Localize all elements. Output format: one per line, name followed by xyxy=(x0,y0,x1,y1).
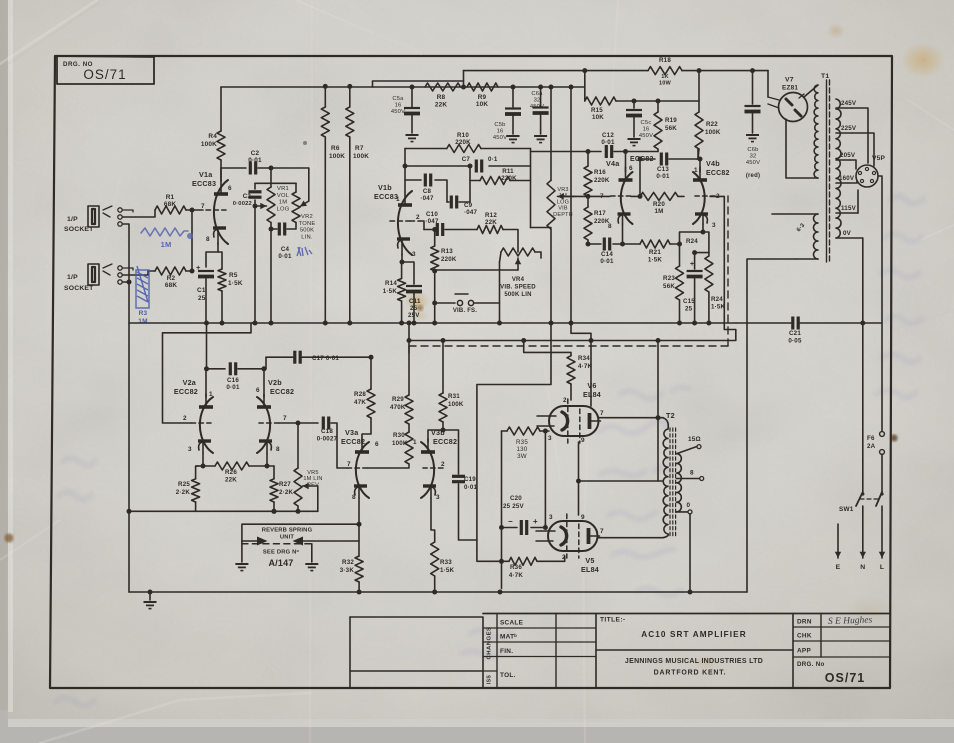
svg-text:7: 7 xyxy=(283,415,287,422)
potentiometer VR3 1M vib depth xyxy=(547,87,555,323)
potentiometer VR5 1M reverb xyxy=(294,423,302,511)
svg-text:ECC83: ECC83 xyxy=(192,179,216,188)
wire C18 to V3a grid xyxy=(331,423,347,468)
label ECC82 for V4b xyxy=(706,170,730,177)
pin 3 of V1b xyxy=(412,251,416,258)
label V6 EL84 xyxy=(583,381,601,399)
label C1 xyxy=(197,287,206,302)
svg-text:25: 25 xyxy=(410,305,418,312)
svg-text:R13: R13 xyxy=(441,248,453,255)
resistor R12 22K xyxy=(477,226,518,253)
svg-text:16: 16 xyxy=(643,126,650,132)
resistor R33 1.5K xyxy=(431,542,439,592)
svg-text:(red): (red) xyxy=(746,173,760,179)
label R32 xyxy=(340,559,355,574)
capacitor C20 25 25V xyxy=(499,517,545,535)
ground for C6b xyxy=(746,135,759,142)
svg-text:ECC82: ECC82 xyxy=(270,387,294,396)
svg-text:T2: T2 xyxy=(666,411,675,420)
svg-text:100K: 100K xyxy=(448,401,464,408)
pin 8 of V3a xyxy=(352,494,356,501)
label VR5 xyxy=(303,470,322,488)
svg-text:C18: C18 xyxy=(321,428,333,435)
svg-text:6: 6 xyxy=(629,165,633,172)
label 6.3V xyxy=(796,222,807,233)
pin 2 of V5 xyxy=(562,554,566,561)
svg-text:+: + xyxy=(196,263,201,272)
label R22 xyxy=(705,121,721,136)
svg-text:VR2: VR2 xyxy=(301,214,313,220)
resistor R24 1.5K xyxy=(695,253,713,323)
svg-text:OS/71: OS/71 xyxy=(825,671,865,685)
label V2b ECC82 xyxy=(268,378,294,396)
svg-text:EL84: EL84 xyxy=(581,565,599,574)
svg-text:C4: C4 xyxy=(281,246,290,253)
svg-text:8: 8 xyxy=(352,494,356,501)
wire V6 plate to T2 primary xyxy=(599,418,669,429)
svg-text:DRG. No: DRG. No xyxy=(797,661,825,668)
label V1a ECC83 xyxy=(192,170,216,188)
wire V2b grid to C18 xyxy=(279,421,318,426)
svg-text:C5c: C5c xyxy=(641,120,652,126)
dashed section boundary xyxy=(409,196,728,357)
svg-text:2: 2 xyxy=(183,415,187,422)
svg-text:1·5K: 1·5K xyxy=(648,257,663,264)
svg-text:LOG: LOG xyxy=(557,199,569,205)
label VR2 xyxy=(299,214,316,240)
T2 primary winding xyxy=(663,429,668,534)
svg-text:JENNINGS MUSICAL INDUSTRIES LT: JENNINGS MUSICAL INDUSTRIES LTD xyxy=(625,658,763,665)
svg-text:R2: R2 xyxy=(167,275,176,282)
wire V4b cathode left leg xyxy=(677,224,703,247)
VR4 wiper arrow xyxy=(435,258,522,270)
ground for C6a xyxy=(534,136,547,143)
label V4a xyxy=(606,159,620,168)
wire rail to R15 xyxy=(582,68,587,101)
transformer T1 core xyxy=(827,80,830,262)
resistor R5 1.5K xyxy=(218,269,226,323)
wire V6 cathode node xyxy=(543,429,549,528)
label R7 xyxy=(353,145,369,160)
svg-text:DEPTH: DEPTH xyxy=(553,212,573,218)
svg-text:0·01: 0·01 xyxy=(464,484,478,491)
svg-text:3: 3 xyxy=(549,514,553,521)
svg-text:E: E xyxy=(836,564,841,571)
triode V3a xyxy=(347,439,369,498)
svg-text:7: 7 xyxy=(347,461,351,468)
svg-text:V2b: V2b xyxy=(268,378,282,387)
label R20 xyxy=(653,201,665,215)
svg-text:1M: 1M xyxy=(138,318,147,325)
pin 6 of V3a xyxy=(375,441,379,448)
svg-text:32: 32 xyxy=(534,97,541,103)
svg-text:C14: C14 xyxy=(601,251,613,258)
svg-text:1·5K: 1·5K xyxy=(383,288,398,295)
svg-text:C19: C19 xyxy=(464,476,476,483)
svg-text:R10: R10 xyxy=(457,132,469,139)
svg-text:450V: 450V xyxy=(746,160,760,166)
wire jack grounds to earth bus xyxy=(123,210,134,592)
svg-text:220K: 220K xyxy=(594,218,610,225)
svg-text:115V: 115V xyxy=(841,205,857,212)
svg-text:R19: R19 xyxy=(665,117,677,124)
svg-text:APP: APP xyxy=(797,648,811,655)
svg-text:V4a: V4a xyxy=(606,159,620,168)
tap 115V xyxy=(836,190,858,213)
pin 6 of V2b xyxy=(256,387,260,394)
B+ drop to V2a plate xyxy=(206,323,208,369)
pin 7 of V5 xyxy=(600,528,604,535)
title block grid xyxy=(350,614,889,689)
svg-text:ECC82: ECC82 xyxy=(706,170,730,177)
resistor R6 100K xyxy=(321,84,329,323)
svg-text:R35: R35 xyxy=(516,439,528,446)
resistor R28 47K xyxy=(362,355,375,442)
potentiometer VR4 vib speed 500K xyxy=(500,248,542,262)
svg-text:6: 6 xyxy=(256,387,260,394)
pin 3 of V5 xyxy=(549,514,553,521)
label R1 xyxy=(164,194,177,208)
svg-text:22K: 22K xyxy=(225,477,237,484)
svg-text:R21: R21 xyxy=(649,249,661,256)
svg-text:C7: C7 xyxy=(462,156,471,163)
label C8 xyxy=(420,188,434,202)
resistor R32 3.3K xyxy=(355,556,363,592)
svg-text:R20: R20 xyxy=(653,201,665,208)
svg-text:10W: 10W xyxy=(659,81,672,87)
svg-text:15Ω: 15Ω xyxy=(688,436,701,443)
svg-text:V6: V6 xyxy=(587,381,596,390)
svg-text:VR4: VR4 xyxy=(512,277,525,283)
label VIB FS xyxy=(453,308,477,314)
pin 8 of V2b xyxy=(276,446,280,453)
resistor R30 100K xyxy=(367,424,413,468)
label ECC82 for V4a xyxy=(630,156,654,163)
svg-text:TOL.: TOL. xyxy=(500,672,516,679)
label C5b xyxy=(493,122,507,141)
mains terminal N xyxy=(860,506,866,571)
svg-text:C6b: C6b xyxy=(747,147,758,153)
wire V4b cathode right leg xyxy=(701,230,709,253)
tap 205V xyxy=(836,152,856,169)
potentiometer VR2 500K tone xyxy=(292,183,300,222)
triode V3b xyxy=(421,439,443,498)
svg-text:1/P: 1/P xyxy=(67,216,78,223)
pin 2 of V6 xyxy=(563,397,567,404)
label C2 xyxy=(248,150,262,164)
svg-text:R17: R17 xyxy=(594,210,606,217)
wire J2 tip to R2 xyxy=(123,271,156,275)
triode V1b xyxy=(390,191,412,255)
label VR3 xyxy=(553,187,573,218)
pin 2 of V3b xyxy=(441,461,445,468)
HT rail C xyxy=(221,85,585,90)
svg-text:R30: R30 xyxy=(393,432,405,439)
svg-text:R7: R7 xyxy=(355,145,364,152)
reverb spring unit (see drg A/147) xyxy=(235,522,361,571)
svg-text:·047: ·047 xyxy=(425,218,439,225)
label C6b xyxy=(746,147,760,179)
svg-text:0·0022: 0·0022 xyxy=(233,201,252,207)
svg-text:OS/71: OS/71 xyxy=(83,67,126,82)
wire R2 to grid node xyxy=(186,210,195,274)
svg-text:68K: 68K xyxy=(164,201,177,208)
svg-text:C11: C11 xyxy=(409,298,421,305)
svg-text:VIB. FS.: VIB. FS. xyxy=(453,308,477,314)
svg-text:3: 3 xyxy=(412,251,416,258)
T1 primary HT winding xyxy=(786,85,818,178)
svg-text:245V: 245V xyxy=(841,100,857,107)
ground for C5c xyxy=(628,139,641,146)
svg-text:C20: C20 xyxy=(510,495,522,502)
capacitor C4 0.01 xyxy=(271,223,296,236)
label R2 xyxy=(165,275,178,289)
svg-text:VIB: VIB xyxy=(558,206,568,212)
svg-text:2A: 2A xyxy=(867,443,876,450)
pin 1 of V1b xyxy=(396,196,400,203)
svg-text:1: 1 xyxy=(694,167,698,174)
resistor R1 68K xyxy=(155,206,186,214)
svg-text:450V: 450V xyxy=(639,133,653,139)
label V2a ECC82 xyxy=(174,378,198,396)
svg-text:2: 2 xyxy=(563,397,567,404)
VR1 wiper arrow xyxy=(255,203,267,209)
pin 1 of V3b xyxy=(413,439,417,446)
svg-text:S E Hughes: S E Hughes xyxy=(828,615,873,627)
resistor R34 4.7K xyxy=(521,338,575,400)
approved row xyxy=(797,648,811,655)
C17 takeoff rail xyxy=(266,356,371,358)
label V3a ECC82 xyxy=(341,428,365,446)
svg-text:2: 2 xyxy=(441,461,445,468)
svg-text:0V: 0V xyxy=(843,230,852,237)
input jack J1 (upper I/P socket) xyxy=(88,206,122,227)
capacitor C16 0.01 xyxy=(230,362,235,375)
label R16 xyxy=(594,169,610,184)
tolerance row label xyxy=(500,672,516,679)
pin 7 of V4a xyxy=(600,193,604,200)
wire cathode resistor returns xyxy=(127,509,318,514)
capacitor C5a 16 450V xyxy=(404,87,420,133)
label C20 xyxy=(503,495,524,510)
mains terminal E xyxy=(835,524,841,571)
label R18 xyxy=(659,57,672,87)
capacitor C1 25 (cathode bypass) xyxy=(196,263,214,323)
svg-text:C16: C16 xyxy=(227,377,239,384)
svg-text:SOCKET: SOCKET xyxy=(64,226,94,233)
svg-text:56K: 56K xyxy=(665,125,677,132)
capacitor C14 0.01 xyxy=(604,238,609,251)
chassis ground stub xyxy=(144,590,157,609)
svg-text:R9: R9 xyxy=(478,94,487,101)
blue-pencil resistor R3 1M (vertical scribble) xyxy=(136,266,149,308)
label R33 xyxy=(440,559,455,574)
finish row label xyxy=(500,648,513,655)
svg-text:2: 2 xyxy=(416,214,420,221)
wire V5 plate to T2 primary xyxy=(598,534,669,538)
svg-text:R29: R29 xyxy=(392,396,404,403)
wire V2a plate feed xyxy=(204,366,225,397)
svg-text:CHK: CHK xyxy=(797,633,812,640)
wire C2 to tone network xyxy=(258,166,309,171)
svg-text:1M LIN: 1M LIN xyxy=(303,476,322,482)
wire R1 to V1a grid xyxy=(186,208,203,213)
wire V2a cathode xyxy=(196,453,215,466)
svg-text:C15: C15 xyxy=(683,298,695,305)
wire VR1 bottom to bus xyxy=(269,227,274,324)
pin 3 of V6 xyxy=(548,435,552,442)
resistor R35 130 3W xyxy=(502,427,546,435)
svg-text:R8: R8 xyxy=(437,94,446,101)
svg-text:450V: 450V xyxy=(391,109,405,115)
svg-text:1/P: 1/P xyxy=(67,274,78,281)
wire V5 grid feed from V4 xyxy=(477,323,551,561)
svg-text:3: 3 xyxy=(188,446,192,453)
capacitor C7 0.1 xyxy=(476,160,481,173)
resistor R8 22K xyxy=(425,83,461,91)
svg-text:R24: R24 xyxy=(686,238,698,245)
svg-text:22K: 22K xyxy=(435,102,448,109)
feedback/earth return from T2 common xyxy=(689,514,691,592)
label V1b ECC83 xyxy=(374,183,398,201)
svg-text:220K: 220K xyxy=(594,177,610,184)
svg-text:VR1: VR1 xyxy=(277,186,289,192)
svg-text:9: 9 xyxy=(581,437,585,444)
svg-text:450V: 450V xyxy=(530,104,544,110)
svg-text:1·5K: 1·5K xyxy=(228,280,243,287)
capacitor C15 25 xyxy=(687,250,703,323)
svg-text:R14: R14 xyxy=(385,280,397,287)
resistor R31 100K xyxy=(428,338,447,442)
label C12 xyxy=(601,132,615,146)
svg-text:R12: R12 xyxy=(485,212,497,219)
triode V2a xyxy=(191,394,213,453)
svg-text:6: 6 xyxy=(228,185,232,192)
label SW1 xyxy=(839,506,854,513)
svg-text:SEE DRG Nᵒ: SEE DRG Nᵒ xyxy=(263,550,300,556)
svg-text:450V: 450V xyxy=(493,135,507,141)
label R4 xyxy=(201,133,217,148)
wire V1b grid xyxy=(410,221,424,230)
label C13 xyxy=(656,166,670,180)
pin 6 of V1a xyxy=(228,185,232,192)
resistor R15 10K xyxy=(585,97,616,105)
label R24 value xyxy=(711,296,726,311)
capacitor C6a 32 450V xyxy=(533,87,549,134)
label C17 xyxy=(312,355,339,362)
svg-text:47K: 47K xyxy=(354,399,366,406)
svg-text:C5b: C5b xyxy=(494,122,505,128)
svg-text:R27: R27 xyxy=(279,481,291,488)
border frame xyxy=(50,56,892,688)
VR5 wiper arrow xyxy=(303,483,318,512)
screen supply link xyxy=(576,442,662,515)
blue scribble near C4 xyxy=(297,247,312,256)
svg-text:DARTFORD KENT.: DARTFORD KENT. xyxy=(654,670,727,677)
svg-text:VR5: VR5 xyxy=(307,470,318,476)
label R12 xyxy=(485,212,497,226)
HT drop to T2 centre xyxy=(656,338,661,481)
svg-text:R4: R4 xyxy=(208,133,217,140)
svg-text:R24: R24 xyxy=(711,296,723,303)
svg-text:R33: R33 xyxy=(440,559,452,566)
svg-text:220K: 220K xyxy=(501,175,517,182)
svg-text:1·5K: 1·5K xyxy=(711,304,726,311)
label R26 xyxy=(225,469,237,484)
svg-text:C6a: C6a xyxy=(531,91,543,97)
svg-text:7: 7 xyxy=(600,528,604,535)
label I/P socket 2 xyxy=(64,274,94,292)
svg-text:ECC82: ECC82 xyxy=(174,387,198,396)
svg-text:L: L xyxy=(880,564,884,571)
vibrato feed vertical xyxy=(531,149,552,228)
resistor R21 1.5K xyxy=(640,240,680,248)
capacitor C21 0.05 xyxy=(793,317,798,330)
svg-text:CHANGES: CHANGES xyxy=(487,627,493,660)
T1 heater winding 6.3V xyxy=(772,214,818,259)
mains neutral line xyxy=(862,238,864,492)
pin 8 of V1a xyxy=(206,236,210,243)
fuse F6 2A xyxy=(880,432,885,492)
label R14 xyxy=(383,280,398,295)
cathode rail of phase inverter xyxy=(586,242,641,247)
capacitor C8 .047 xyxy=(405,174,447,203)
svg-text:ISS: ISS xyxy=(487,675,493,685)
svg-text:−: − xyxy=(508,517,513,526)
label C18 xyxy=(317,428,338,443)
svg-text:R25: R25 xyxy=(178,481,190,488)
label R19 xyxy=(665,117,677,132)
capacitor C10 .047 xyxy=(424,223,477,236)
svg-text:16: 16 xyxy=(395,102,402,108)
pin 9 of V5 xyxy=(581,514,585,521)
resistor R13 220K xyxy=(431,227,439,323)
label R9 xyxy=(476,94,489,108)
svg-text:0·1: 0·1 xyxy=(488,156,498,163)
svg-text:3W: 3W xyxy=(517,453,527,460)
label C4 xyxy=(278,246,292,260)
drawing-number box (top left) xyxy=(57,56,154,84)
capacitor C3 0.0022 xyxy=(249,183,297,208)
label C11 xyxy=(408,298,421,319)
potentiometer VR1 1M volume xyxy=(267,168,275,223)
resistor R16 220K xyxy=(584,152,592,197)
tap 15 ohm xyxy=(677,436,702,454)
blue label R3 1M xyxy=(138,310,147,325)
label C10 xyxy=(425,211,439,225)
svg-text:V5: V5 xyxy=(585,556,594,565)
svg-text:V4b: V4b xyxy=(706,159,720,168)
bypass link over R8 xyxy=(373,81,464,87)
label C19 xyxy=(464,476,478,491)
wire V1a cathode down xyxy=(206,243,222,269)
svg-text:R5: R5 xyxy=(229,272,238,279)
svg-text:1: 1 xyxy=(209,391,213,398)
wire plate to C2 xyxy=(221,168,246,181)
svg-text:F6: F6 xyxy=(867,435,875,442)
pin 7 of V3a xyxy=(347,461,351,468)
svg-text:7: 7 xyxy=(201,203,205,210)
lower earth bus xyxy=(129,590,747,595)
label C15 xyxy=(683,298,695,313)
pin 9 of V6 xyxy=(581,437,585,444)
resistor R29 470K xyxy=(405,338,413,424)
drawing number cell xyxy=(797,661,865,685)
output transformer T2 core xyxy=(670,428,676,536)
checked row xyxy=(797,633,812,640)
pin 3 of V3b xyxy=(436,494,440,501)
label R31 xyxy=(448,393,464,408)
